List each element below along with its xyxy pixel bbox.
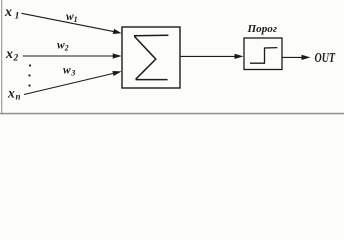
page bottom rule xyxy=(0,113,344,115)
arrowhead w3 wire xyxy=(112,71,121,76)
page left margin rule xyxy=(1,0,2,114)
summation block box xyxy=(122,27,180,88)
wire: x2 to summation, weight w2 xyxy=(23,55,115,57)
svg-text:w3: w3 xyxy=(63,65,75,78)
svg-text:w1: w1 xyxy=(66,11,78,24)
wire: threshold output xyxy=(282,56,303,58)
arrowhead output wire xyxy=(302,55,311,60)
ellipsis dots between x2 and xn xyxy=(29,64,31,66)
step function symbol xyxy=(250,48,277,64)
threshold block box xyxy=(244,38,282,70)
svg-text:OUT: OUT xyxy=(315,50,336,65)
wire: summation output to threshold block xyxy=(181,55,236,57)
arrowhead w1 wire xyxy=(113,29,122,34)
arrowhead w2 wire xyxy=(113,53,122,58)
svg-text:x2: x2 xyxy=(5,47,19,64)
sigma symbol xyxy=(134,35,168,79)
svg-text:w2: w2 xyxy=(57,40,69,53)
wire: xn to summation, weight w3 xyxy=(24,73,115,95)
wire: x1 to summation, weight w1 xyxy=(22,13,116,32)
svg-text:xn: xn xyxy=(7,86,21,102)
svg-text:x1: x1 xyxy=(4,5,19,22)
svg-text:Порог: Порог xyxy=(246,24,277,35)
arrowhead summation output xyxy=(235,54,244,59)
